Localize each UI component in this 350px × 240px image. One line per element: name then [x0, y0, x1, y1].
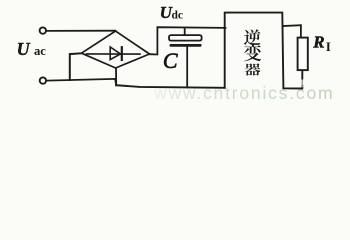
svg-text:I: I [326, 39, 331, 54]
svg-text:U: U [17, 39, 31, 59]
svg-text:R: R [312, 33, 324, 52]
svg-text:dc: dc [172, 10, 184, 22]
svg-text:ac: ac [34, 44, 46, 58]
svg-text:C: C [163, 48, 178, 73]
svg-text:www.cntronics.com: www.cntronics.com [153, 83, 334, 103]
